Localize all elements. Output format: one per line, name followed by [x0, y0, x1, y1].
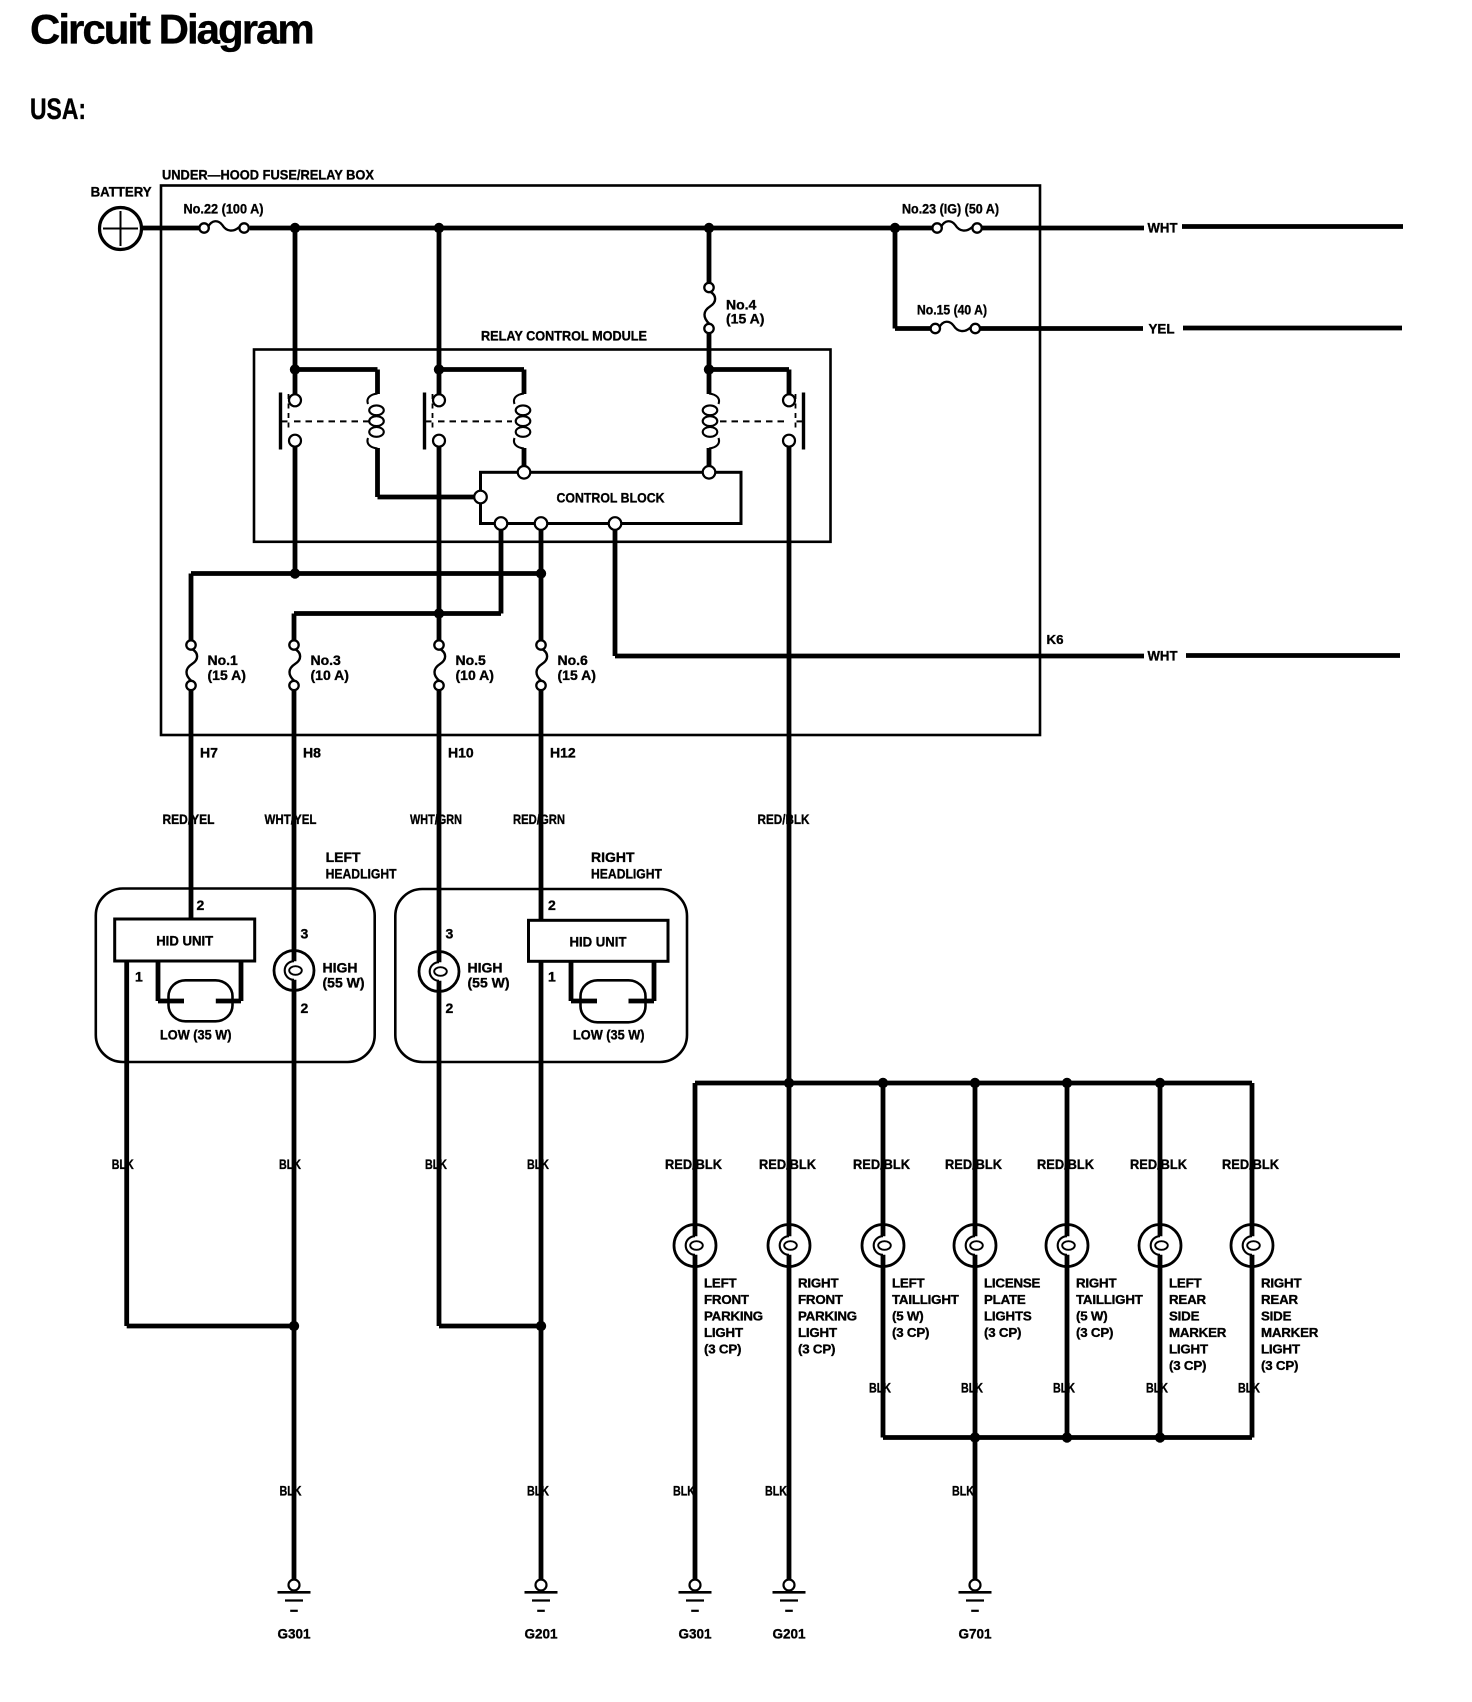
svg-text:MARKER: MARKER — [1169, 1325, 1227, 1340]
svg-text:LIGHT: LIGHT — [1169, 1342, 1208, 1357]
svg-text:WHT: WHT — [1148, 221, 1179, 236]
svg-text:(15 A): (15 A) — [558, 667, 596, 683]
svg-text:G201: G201 — [525, 1627, 558, 1642]
svg-text:No.1: No.1 — [208, 652, 239, 668]
svg-text:G701: G701 — [959, 1627, 992, 1642]
svg-text:G201: G201 — [773, 1627, 806, 1642]
svg-text:Circuit Diagram: Circuit Diagram — [30, 6, 313, 53]
svg-text:K6: K6 — [1047, 633, 1064, 647]
svg-text:(55 W): (55 W) — [323, 975, 365, 991]
svg-text:(3 CP): (3 CP) — [1261, 1358, 1298, 1373]
svg-text:(3 CP): (3 CP) — [798, 1342, 835, 1357]
svg-text:(55 W): (55 W) — [468, 975, 510, 991]
svg-text:SIDE: SIDE — [1261, 1309, 1292, 1324]
svg-text:H7: H7 — [200, 745, 218, 761]
svg-text:RIGHT: RIGHT — [591, 849, 635, 865]
svg-text:No.23 (IG) (50 A): No.23 (IG) (50 A) — [902, 201, 999, 217]
svg-text:TAILLIGHT: TAILLIGHT — [1076, 1292, 1143, 1307]
svg-text:CONTROL BLOCK: CONTROL BLOCK — [557, 490, 665, 506]
svg-text:HID UNIT: HID UNIT — [570, 934, 627, 950]
svg-text:BLK: BLK — [112, 1156, 134, 1172]
svg-text:(3 CP): (3 CP) — [984, 1325, 1021, 1340]
svg-text:BLK: BLK — [673, 1483, 695, 1499]
svg-text:G301: G301 — [679, 1627, 712, 1642]
svg-text:G301: G301 — [278, 1627, 311, 1642]
svg-text:(10 A): (10 A) — [456, 667, 494, 683]
svg-text:2: 2 — [548, 897, 556, 913]
svg-text:RIGHT: RIGHT — [1076, 1276, 1116, 1291]
svg-text:PLATE: PLATE — [984, 1292, 1026, 1307]
svg-text:H12: H12 — [550, 745, 576, 761]
svg-text:H10: H10 — [448, 745, 474, 761]
svg-text:No.15 (40 A): No.15 (40 A) — [917, 302, 987, 318]
svg-text:RELAY CONTROL MODULE: RELAY CONTROL MODULE — [481, 328, 647, 344]
svg-text:BLK: BLK — [1053, 1380, 1075, 1396]
svg-text:PARKING: PARKING — [704, 1309, 763, 1324]
svg-text:FRONT: FRONT — [798, 1292, 843, 1307]
svg-text:WHT/YEL: WHT/YEL — [265, 811, 317, 827]
svg-text:RIGHT: RIGHT — [798, 1276, 838, 1291]
svg-text:LIGHT: LIGHT — [1261, 1342, 1300, 1357]
svg-text:BLK: BLK — [279, 1156, 301, 1172]
svg-text:HIGH: HIGH — [468, 960, 503, 976]
svg-text:LEFT: LEFT — [326, 849, 361, 865]
svg-text:MARKER: MARKER — [1261, 1325, 1319, 1340]
svg-text:REAR: REAR — [1169, 1292, 1206, 1307]
svg-text:YEL: YEL — [1149, 322, 1175, 337]
svg-text:1: 1 — [548, 969, 556, 985]
svg-text:WHT: WHT — [1148, 649, 1179, 664]
svg-text:BLK: BLK — [961, 1380, 983, 1396]
svg-text:(15 A): (15 A) — [726, 311, 764, 327]
svg-text:BATTERY: BATTERY — [91, 184, 153, 200]
svg-text:No.6: No.6 — [558, 652, 589, 668]
svg-text:BLK: BLK — [527, 1156, 549, 1172]
svg-text:LEFT: LEFT — [1169, 1276, 1202, 1291]
svg-text:HID UNIT: HID UNIT — [156, 933, 213, 949]
svg-text:PARKING: PARKING — [798, 1309, 857, 1324]
svg-text:USA:: USA: — [30, 93, 86, 126]
svg-text:BLK: BLK — [280, 1483, 302, 1499]
svg-text:H8: H8 — [303, 745, 321, 761]
svg-text:WHT/GRN: WHT/GRN — [410, 811, 462, 827]
svg-text:No.3: No.3 — [311, 652, 342, 668]
svg-text:LOW (35 W): LOW (35 W) — [573, 1027, 645, 1043]
svg-text:SIDE: SIDE — [1169, 1309, 1200, 1324]
svg-text:RIGHT: RIGHT — [1261, 1276, 1301, 1291]
svg-text:BLK: BLK — [1146, 1380, 1168, 1396]
svg-text:FRONT: FRONT — [704, 1292, 749, 1307]
svg-text:No.22 (100 A): No.22 (100 A) — [184, 201, 264, 217]
svg-text:LEFT: LEFT — [704, 1276, 737, 1291]
svg-text:(5 W): (5 W) — [1076, 1309, 1108, 1324]
svg-text:2: 2 — [446, 1000, 454, 1016]
svg-text:No.5: No.5 — [456, 652, 487, 668]
svg-text:BLK: BLK — [869, 1380, 891, 1396]
svg-text:BLK: BLK — [765, 1483, 787, 1499]
svg-text:HEADLIGHT: HEADLIGHT — [326, 866, 397, 882]
svg-text:HEADLIGHT: HEADLIGHT — [591, 866, 662, 882]
svg-text:LIGHT: LIGHT — [704, 1325, 743, 1340]
svg-text:2: 2 — [301, 1000, 309, 1016]
svg-text:BLK: BLK — [425, 1156, 447, 1172]
svg-text:3: 3 — [446, 926, 454, 942]
svg-text:HIGH: HIGH — [323, 960, 358, 976]
svg-text:LOW (35 W): LOW (35 W) — [160, 1027, 232, 1043]
svg-text:1: 1 — [135, 969, 143, 985]
svg-text:(10 A): (10 A) — [311, 667, 349, 683]
svg-text:BLK: BLK — [1238, 1380, 1260, 1396]
svg-text:TAILLIGHT: TAILLIGHT — [892, 1292, 959, 1307]
svg-text:BLK: BLK — [952, 1483, 974, 1499]
svg-text:LICENSE: LICENSE — [984, 1276, 1041, 1291]
svg-text:(3 CP): (3 CP) — [892, 1325, 929, 1340]
svg-text:LIGHTS: LIGHTS — [984, 1309, 1032, 1324]
svg-text:(5 W): (5 W) — [892, 1309, 924, 1324]
svg-text:BLK: BLK — [527, 1483, 549, 1499]
svg-text:(3 CP): (3 CP) — [1076, 1325, 1113, 1340]
svg-text:(3 CP): (3 CP) — [704, 1342, 741, 1357]
svg-text:2: 2 — [197, 897, 205, 913]
svg-text:RED/BLK: RED/BLK — [758, 811, 810, 827]
svg-text:UNDER—HOOD FUSE/RELAY BOX: UNDER—HOOD FUSE/RELAY BOX — [162, 167, 375, 183]
svg-text:(15 A): (15 A) — [208, 667, 246, 683]
svg-text:REAR: REAR — [1261, 1292, 1298, 1307]
svg-text:LEFT: LEFT — [892, 1276, 925, 1291]
svg-text:(3 CP): (3 CP) — [1169, 1358, 1206, 1373]
svg-text:LIGHT: LIGHT — [798, 1325, 837, 1340]
svg-text:3: 3 — [301, 926, 309, 942]
